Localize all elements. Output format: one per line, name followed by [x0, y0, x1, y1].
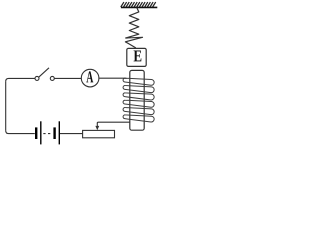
- battery cell 2 negative plate: [53, 127, 55, 139]
- rheostat wiper arrow: [96, 123, 98, 127]
- ceiling line: [121, 6, 157, 8]
- wire: battery to rheostat: [60, 133, 83, 135]
- wire: dashed between cells: [43, 133, 51, 135]
- battery cell 1 positive plate: [40, 121, 42, 144]
- coil turn 6: [123, 114, 155, 122]
- rheostat R body: [83, 130, 115, 137]
- iron bar E (box): [127, 48, 146, 66]
- wire: switch to ammeter: [54, 77, 81, 79]
- label E: [134, 50, 142, 61]
- battery cell 1 negative plate: [35, 127, 37, 139]
- coil turn 3: [123, 92, 155, 100]
- wire: left loop top (switch to left corner): [6, 78, 35, 81]
- spring: [125, 8, 142, 48]
- label A: [86, 71, 93, 82]
- wire: bottom left to battery: [6, 131, 35, 134]
- coil turn 1: [123, 77, 155, 85]
- coil core: [130, 70, 144, 130]
- switch lever: [39, 68, 49, 77]
- coil turn 2: [123, 84, 155, 92]
- wire: left vertical: [5, 81, 7, 130]
- wire: ammeter to coil top: [99, 77, 127, 79]
- switch S contact right: [50, 76, 54, 80]
- ammeter A: [81, 69, 99, 87]
- coil turn 4: [123, 99, 155, 107]
- battery cell 2 positive plate: [58, 121, 60, 144]
- coil turn 5: [123, 106, 155, 114]
- ceiling hatching: [121, 2, 156, 7]
- switch S contact left: [35, 76, 39, 80]
- wire: wiper to coil bottom: [97, 122, 130, 123]
